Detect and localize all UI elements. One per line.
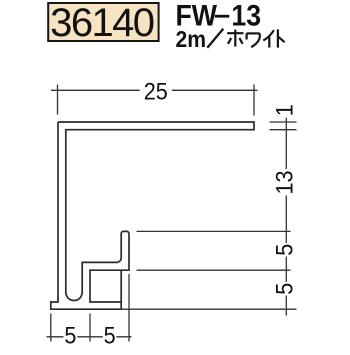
- extension line bottom edge: [121, 308, 296, 310]
- extension tick flange bottom: [270, 129, 297, 131]
- svg-text:36140: 36140: [50, 1, 154, 45]
- svg-text:5: 5: [270, 283, 297, 295]
- katakana WA: [247, 33, 260, 47]
- katakana TO: [278, 29, 285, 47]
- svg-text:25: 25: [144, 77, 168, 104]
- part number box: [48, 3, 158, 41]
- svg-text:13: 13: [270, 170, 297, 194]
- profile outline lower: [51, 122, 121, 309]
- svg-text:1: 1: [270, 104, 297, 116]
- svg-text:13: 13: [231, 0, 261, 33]
- dash of FW-13: [215, 15, 229, 18]
- extension line wall right: [89, 314, 91, 342]
- svg-text:5: 5: [104, 322, 116, 349]
- extension line fin top: [137, 230, 291, 232]
- fullwidth slash: [207, 29, 223, 48]
- profile outline upper: [58, 122, 254, 302]
- extension line fin right: [128, 274, 130, 342]
- svg-text:5: 5: [270, 244, 297, 256]
- extension line foot left: [50, 314, 52, 342]
- extension tick flange top: [270, 121, 297, 123]
- katakana HO: [227, 30, 243, 47]
- svg-text:5: 5: [64, 322, 76, 349]
- extension line shelf bottom: [137, 269, 291, 271]
- bottom dimension line: [47, 336, 132, 338]
- right dimension line vertical: [285, 118, 287, 316]
- katakana I: [263, 30, 274, 47]
- dimension line 25: [51, 89, 258, 91]
- extension line right of dim 25: [253, 85, 255, 116]
- svg-text:2m: 2m: [176, 26, 207, 52]
- extension line left of dim 25: [57, 85, 59, 115]
- model label FW-13: [176, 0, 262, 33]
